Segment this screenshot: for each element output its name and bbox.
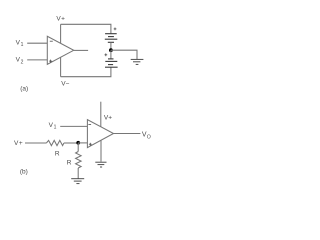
- op-amp U2: [87, 120, 113, 148]
- wire R2 to ground: [77, 168, 79, 179]
- op-amp U1: [47, 36, 73, 64]
- ground under U2: [95, 162, 106, 167]
- svg-text:O: O: [147, 135, 151, 141]
- svg-text:V+: V+: [104, 115, 112, 122]
- wire U1 output stub: [74, 49, 88, 51]
- minus mark U1 inverting input: [50, 40, 53, 42]
- node between batteries: [109, 48, 113, 52]
- wire R1 to node: [64, 142, 78, 144]
- ground (a): [131, 59, 144, 64]
- wire V1 input: [27, 42, 47, 44]
- svg-text:R: R: [67, 159, 72, 166]
- wire bottom rail: [61, 67, 111, 76]
- svg-text:R: R: [55, 150, 60, 157]
- svg-text:(b): (b): [20, 168, 28, 175]
- svg-text:1: 1: [21, 42, 24, 48]
- wire node to ground (a): [111, 50, 137, 59]
- wire top rail: [61, 24, 111, 33]
- node (b): [76, 141, 80, 145]
- plus mark U1 noninverting input: [49, 60, 52, 63]
- plus label of battery B1: [114, 28, 117, 31]
- ground under R2: [71, 179, 84, 184]
- wire U2 output: [114, 133, 141, 135]
- plus mark U2 noninverting input: [89, 143, 92, 146]
- wire from U1 top to positive rail: [60, 24, 62, 43]
- svg-text:(a): (a): [20, 85, 28, 92]
- wire V+ to resistor R1: [25, 142, 46, 144]
- resistor R1: [46, 140, 64, 145]
- minus mark U2 inverting input: [88, 123, 91, 125]
- svg-text:V−: V−: [61, 81, 69, 88]
- wire U2 positive supply: [100, 102, 102, 127]
- svg-text:V+: V+: [56, 16, 65, 23]
- wire V2 input: [27, 59, 47, 61]
- wire from U1 bottom to negative rail: [60, 57, 62, 76]
- resistor R2: [76, 152, 82, 169]
- wire node to U2 noninverting input: [78, 142, 87, 144]
- svg-text:2: 2: [21, 60, 24, 66]
- wire B1 bottom to node: [110, 42, 112, 50]
- wire node down to resistor R2: [77, 143, 79, 152]
- battery B2 (V- supply): [105, 59, 118, 67]
- wire V1 to U2 inverting input: [60, 125, 87, 127]
- wire node to battery B2: [110, 50, 112, 59]
- svg-text:V+: V+: [14, 140, 23, 147]
- svg-text:1: 1: [54, 125, 57, 131]
- wire U2 negative supply to ground: [100, 140, 102, 161]
- battery B1 (V+ supply): [105, 34, 118, 43]
- plus label of battery B2: [105, 53, 108, 56]
